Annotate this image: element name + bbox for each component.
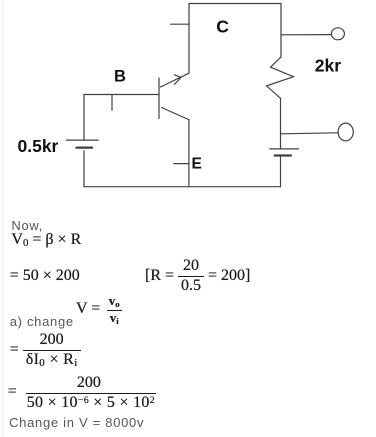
wire resistor to battery [280,98,282,149]
battery left 0.5kr: short plate [76,147,92,149]
terminal top (output) [331,28,344,40]
wire top of box [189,3,281,5]
wire left vertical upper [83,95,85,141]
svg-text:B: B [114,68,126,86]
svg-text:C: C [216,16,229,36]
svg-text:0.5kr: 0.5kr [18,136,59,156]
svg-text:2kr: 2kr [315,56,341,76]
battery right: long plate [270,148,299,150]
battery right: short plate [275,154,291,156]
wire left vertical lower [83,151,85,187]
svg-text:E: E [192,155,202,172]
transistor Q1 emitter diagonal [162,108,189,120]
transistor Q1 collector diagonal [161,73,189,87]
wire bottom rail [84,186,281,188]
transistor Q1 base bar [158,78,160,119]
wire to bottom terminal [281,133,339,134]
wire collector vertical / box left side [188,4,190,74]
faint page edge line [2,0,3,437]
transistor Q1 arrow [175,75,182,85]
resistor R 2kr zigzag [267,57,294,98]
node tick left of E [174,163,189,165]
wire box right side [280,4,282,58]
solution text [11,219,43,233]
wire to top terminal [281,34,331,36]
node tick left of C [171,23,190,25]
node tick below base wire [111,95,113,111]
wire base [84,94,159,96]
wire emitter vertical [188,120,190,187]
terminal bottom (output) [338,123,353,141]
wire battery to bottom [280,156,282,187]
battery left 0.5kr: long plate [67,139,99,141]
